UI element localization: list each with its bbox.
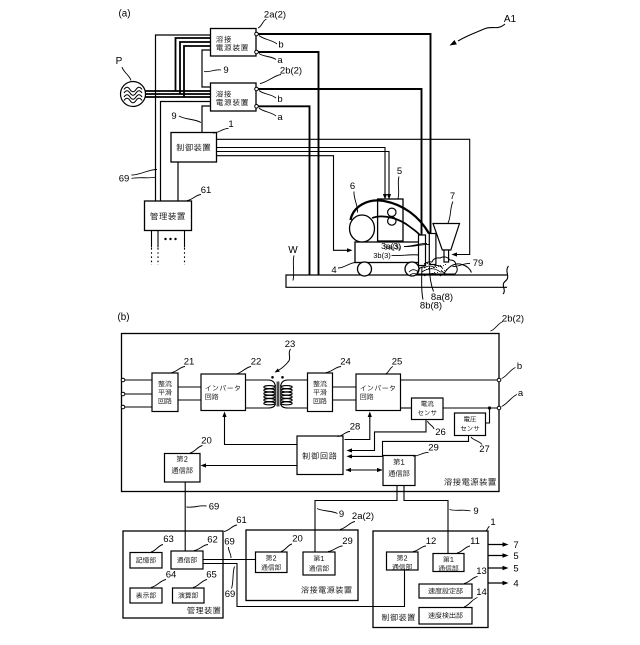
svg-text:63: 63 (163, 534, 174, 545)
wire branch to supply 2a (3 lines) (176, 38, 211, 91)
welding supply 2a corner text (301, 586, 351, 593)
svg-text:29: 29 (428, 443, 439, 454)
current sensor 26 (412, 398, 444, 420)
leader 69 low (232, 567, 235, 589)
terminal a fig b (497, 406, 501, 410)
svg-text:21: 21 (184, 357, 195, 368)
management device lower lines (151, 231, 153, 248)
svg-text:26: 26 (435, 427, 446, 438)
voltage sensor feedback (349, 436, 469, 457)
svg-text:69: 69 (225, 589, 236, 600)
leader 26 (428, 421, 435, 429)
comm unit 62 text (177, 557, 197, 563)
welding power supply 2b outer box (122, 334, 500, 492)
svg-text:25: 25 (392, 357, 403, 368)
input wires (125, 379, 152, 381)
comm line 69 down (184, 482, 186, 551)
control line to carriage (217, 156, 351, 251)
svg-text:9: 9 (223, 65, 228, 76)
leader 20 fig b (281, 544, 292, 552)
torch 3a holder (429, 234, 436, 265)
svg-text:27: 27 (479, 444, 490, 455)
control line to hopper (217, 139, 470, 254)
svg-text:1: 1 (228, 119, 233, 130)
inverter circuit 25 (356, 374, 401, 411)
svg-text:2a(2): 2a(2) (352, 511, 374, 522)
leader 5 (398, 177, 399, 199)
leader 9 (loop A) (204, 70, 221, 72)
display unit text (136, 592, 156, 598)
svg-text:b: b (517, 361, 522, 372)
leader 69 top (187, 506, 207, 508)
svg-text:20: 20 (292, 534, 303, 545)
cable 9 loop B (202, 106, 211, 133)
svg-text:5: 5 (513, 564, 518, 575)
leader P (122, 67, 131, 81)
leader 2a(2) fig b (340, 522, 355, 530)
speed setting unit 13 box (419, 584, 472, 598)
svg-text:9: 9 (473, 506, 478, 517)
speed setting text (428, 588, 462, 594)
leader 13 (464, 577, 478, 584)
leader 62 (194, 545, 208, 551)
svg-text:a: a (518, 388, 524, 399)
output arrow 5 (489, 567, 507, 569)
wire feeder box (378, 199, 403, 241)
svg-text:a: a (277, 112, 283, 123)
cable 9 loop A (202, 50, 211, 87)
AC source wave symbol (124, 87, 142, 95)
wire comm to supply 2b (161, 102, 211, 202)
control device text (177, 144, 211, 152)
svg-text:9: 9 (339, 509, 344, 520)
hopper tube (444, 250, 449, 262)
no2 comm 12 box (387, 552, 419, 570)
rectifier-smoothing circuit 24 (308, 373, 333, 412)
leader W (293, 256, 294, 281)
svg-text:14: 14 (476, 587, 487, 598)
welding power supply 2a text (216, 36, 231, 43)
compute unit text (178, 592, 198, 598)
svg-text:W: W (288, 245, 298, 256)
speed detection text (428, 612, 462, 618)
no1 comm of 2a box (303, 552, 335, 575)
leader 69 mid (228, 547, 231, 558)
storage unit 63 box (130, 553, 162, 569)
svg-text:4: 4 (331, 265, 336, 276)
leader 8b(8) (422, 267, 423, 300)
leader 29 fig b (328, 546, 343, 552)
AC power source P circle (121, 82, 146, 107)
no1 comm of 2a text (314, 555, 324, 561)
leader 24 (326, 367, 341, 373)
no2 comm of 2a box (256, 552, 288, 573)
leader 6 (354, 192, 358, 213)
leader 61 fig b (224, 525, 237, 532)
svg-text:3b(3): 3b(3) (373, 251, 391, 260)
control to inverter 25 (345, 414, 370, 440)
leader 9 left (317, 509, 338, 514)
control to inverter 22 (225, 414, 298, 445)
leader 27 (471, 437, 482, 445)
welding supply 2a fig b box (246, 530, 358, 601)
input terminal 2 (121, 392, 125, 396)
cable 9 to control device comm (404, 486, 448, 554)
svg-text:69: 69 (209, 502, 220, 513)
management device text (150, 212, 185, 220)
leader 20 (190, 446, 203, 454)
ellipsis dots (164, 238, 166, 240)
svg-text:(a): (a) (119, 9, 131, 20)
wire control device to management device (177, 162, 179, 201)
svg-text:29: 29 (342, 536, 353, 547)
svg-text:64: 64 (166, 570, 177, 581)
svg-text:8b(8): 8b(8) (420, 301, 442, 312)
control line to feeder 1 (217, 148, 386, 197)
current sensor text (421, 401, 433, 407)
leader 65 (193, 580, 207, 588)
speed detection unit 14 box (419, 608, 472, 625)
output arrow 7 (489, 544, 507, 546)
no1 comm unit 29 text (393, 459, 404, 466)
svg-text:7: 7 (450, 191, 455, 202)
leader b fig b (502, 368, 516, 379)
svg-text:13: 13 (476, 566, 487, 577)
leader arrow A1 (458, 24, 505, 41)
leader 61 (187, 195, 201, 201)
voltage sensor text (464, 416, 476, 422)
junction dot a (488, 406, 491, 409)
cable 9 to supply 2a comm (315, 486, 397, 553)
svg-text:A1: A1 (504, 14, 517, 25)
svg-text:6: 6 (350, 181, 355, 192)
leader 12 (413, 546, 426, 552)
svg-text:P: P (116, 56, 123, 67)
inverter 25 text (360, 385, 394, 391)
weld bead stipple (424, 263, 425, 264)
control to comm2 link (203, 465, 298, 467)
leader 9 (loop B) (179, 116, 201, 123)
rectifier-smoothing circuit 21 (152, 373, 178, 412)
svg-text:61: 61 (236, 515, 247, 526)
no1 comm 11 text (443, 556, 453, 562)
leader 25 (386, 367, 394, 375)
inverter circuit 22 (201, 374, 246, 411)
comm 62 to control 12 (203, 564, 405, 607)
svg-text:23: 23 (285, 339, 296, 350)
leader 22 (236, 367, 251, 375)
leader 2b(2) (260, 75, 281, 84)
svg-text:79: 79 (473, 258, 484, 269)
svg-text:11: 11 (470, 536, 480, 547)
cable b of 2b to torch (258, 89, 421, 235)
leader a of 2b (259, 108, 276, 116)
workpiece plate (286, 275, 507, 287)
comm unit 62 box (171, 551, 203, 569)
svg-text:22: 22 (251, 357, 262, 368)
cable b of 2a to torch (258, 34, 430, 234)
outer box corner text (444, 478, 495, 486)
management device fig b corner text (187, 607, 220, 614)
leader 2a(2) (258, 19, 267, 28)
control line to feeder 2 (217, 152, 390, 197)
svg-text:b: b (278, 40, 283, 51)
hopper funnel (433, 224, 460, 251)
svg-text:12: 12 (426, 536, 437, 547)
wire 25 to current sensor (401, 407, 412, 409)
storage unit text (136, 557, 156, 563)
voltage sensor 27 (455, 413, 486, 436)
no1 comm unit 29 box (383, 456, 415, 486)
weld bead scribble (417, 257, 458, 274)
management device box (145, 201, 192, 231)
leader 29 (413, 452, 429, 456)
leader 63 (151, 545, 163, 553)
svg-text:1: 1 (490, 517, 495, 528)
output arrow 4 (489, 582, 507, 584)
input terminal 3 (121, 405, 125, 409)
carriage wheel left (358, 262, 372, 276)
input terminal 1 (121, 378, 125, 382)
leader 69 lines (132, 169, 158, 175)
svg-text:62: 62 (207, 535, 218, 546)
svg-text:a: a (277, 55, 283, 66)
no1 comm 11 box (433, 554, 464, 572)
terminal b fig b (497, 378, 501, 382)
wire conduit lower (372, 216, 421, 236)
leader b of 2b (259, 91, 276, 99)
control device fig b box (373, 531, 488, 628)
leader 28 (338, 431, 351, 436)
svg-text:20: 20 (201, 436, 212, 447)
svg-text:69: 69 (119, 174, 130, 185)
label 3a(3) (381, 241, 427, 251)
leader 64 (151, 580, 166, 588)
svg-text:9: 9 (171, 111, 176, 122)
leader a fig b (502, 395, 518, 407)
feed rollers (388, 208, 396, 216)
svg-text:2a(2): 2a(2) (264, 10, 286, 21)
wire 21 to 22 (178, 386, 201, 388)
wire to voltage sensor (486, 408, 490, 423)
control circuit 28 text (303, 452, 337, 459)
compute unit 65 box (173, 588, 205, 603)
leader 79 (453, 263, 471, 266)
svg-text:5: 5 (513, 551, 518, 562)
carriage wheel right (405, 262, 419, 276)
leader a of 2a (259, 54, 276, 60)
wire spool (350, 215, 375, 242)
svg-text:2b(2): 2b(2) (280, 66, 302, 77)
svg-text:b: b (277, 94, 282, 105)
leader 1 (213, 128, 229, 133)
current sensor feedback (349, 420, 427, 451)
leader arrow 23 (279, 349, 291, 370)
no2 comm of 2a text (266, 555, 276, 561)
svg-text:4: 4 (513, 579, 518, 590)
welding power supply 2b box (211, 83, 257, 111)
inverter 22 text (205, 385, 239, 391)
wire comm to supply 2a (156, 35, 211, 201)
welding power supply 2b text (216, 91, 231, 98)
wire b output (401, 379, 498, 381)
welding power supply 2a box (211, 29, 257, 57)
cable a of 2b to workpiece (258, 106, 309, 275)
wire a output (443, 407, 497, 409)
control circuit 28 box (297, 436, 343, 475)
leader 4 (338, 262, 356, 268)
leader 2b(2) fig b (491, 322, 504, 332)
svg-text:65: 65 (206, 570, 217, 581)
leader 8a(8) (430, 267, 434, 292)
svg-text:24: 24 (340, 357, 351, 368)
terminal b of 2b (255, 87, 259, 91)
torch 3b holder (419, 235, 426, 266)
leader b of 2a (259, 36, 277, 45)
leader 1 fig b (486, 527, 490, 531)
comm 62 to supply 2a (203, 559, 256, 561)
svg-text:5: 5 (397, 166, 402, 177)
wire P to supply 2b (3 lines) (146, 90, 211, 92)
leader 9 right (450, 510, 471, 512)
control to comm1 link (346, 469, 382, 471)
leader 11 (457, 546, 470, 553)
control device fig b corner text (382, 614, 415, 621)
svg-text:2b(2): 2b(2) (502, 314, 524, 325)
output arrow 5 (489, 555, 507, 557)
cable a of 2a to workpiece (258, 52, 318, 275)
control device box (171, 133, 217, 163)
no2 comm unit 20 box (165, 454, 201, 483)
rectifier 24 text (313, 380, 326, 386)
svg-text:61: 61 (201, 185, 212, 196)
terminal a of 2a (255, 50, 259, 54)
leader 7 (448, 202, 453, 224)
svg-text:28: 28 (350, 422, 361, 433)
no2 comm unit 20 text (177, 456, 188, 463)
terminal b of 2a (255, 32, 259, 36)
svg-text:3a(3): 3a(3) (384, 242, 402, 251)
svg-text:(b): (b) (118, 312, 130, 323)
wire conduit upper (351, 200, 430, 233)
carriage body (355, 242, 419, 263)
wire 24 to 25 (333, 386, 357, 388)
rectifier 21 text (158, 380, 171, 386)
svg-text:69: 69 (224, 537, 235, 548)
management device fig b box (123, 531, 223, 618)
terminal a of 2b (255, 105, 259, 109)
display unit 64 box (130, 588, 162, 603)
leader 14 (464, 598, 478, 608)
no2 comm 12 text (397, 555, 407, 561)
transformer 23 (246, 380, 276, 386)
workpiece break mark (503, 266, 509, 294)
leader 21 (172, 367, 186, 373)
svg-text:7: 7 (513, 540, 518, 551)
